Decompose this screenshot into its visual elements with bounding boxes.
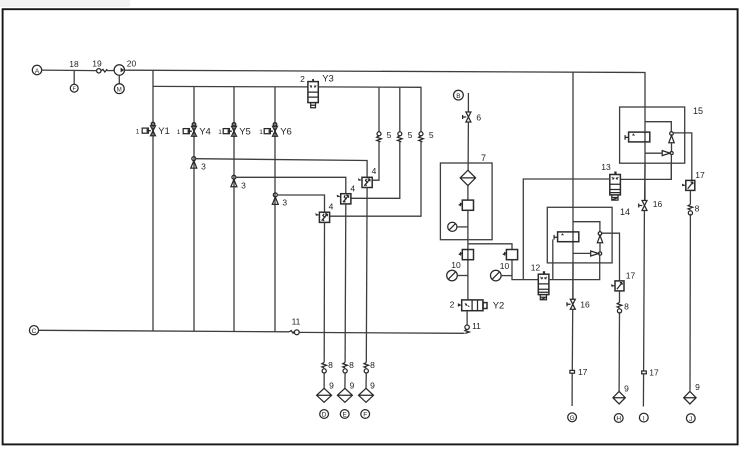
svg-text:15: 15 xyxy=(693,106,703,116)
svg-text:Y5: Y5 xyxy=(239,127,251,138)
svg-text:10: 10 xyxy=(451,260,461,270)
svg-text:8: 8 xyxy=(624,302,629,312)
svg-text:11: 11 xyxy=(292,317,301,327)
svg-text:8: 8 xyxy=(328,360,333,370)
svg-text:19: 19 xyxy=(92,59,102,69)
svg-text:18: 18 xyxy=(69,59,79,69)
svg-text:9: 9 xyxy=(695,382,700,392)
svg-text:13: 13 xyxy=(601,162,611,172)
svg-text:1: 1 xyxy=(136,129,140,136)
svg-text:5: 5 xyxy=(429,130,434,140)
svg-text:20: 20 xyxy=(127,59,137,69)
svg-text:3: 3 xyxy=(282,198,287,208)
svg-text:9: 9 xyxy=(370,381,375,391)
svg-text:I: I xyxy=(643,415,645,422)
svg-text:C: C xyxy=(32,328,37,335)
svg-text:G: G xyxy=(570,415,575,422)
svg-text:17: 17 xyxy=(626,271,636,281)
svg-text:1: 1 xyxy=(177,129,181,136)
svg-text:Y3: Y3 xyxy=(322,74,334,85)
svg-text:17: 17 xyxy=(649,368,659,378)
svg-text:16: 16 xyxy=(580,300,590,310)
svg-text:9: 9 xyxy=(329,381,334,391)
svg-text:17: 17 xyxy=(578,367,588,377)
svg-text:J: J xyxy=(689,416,692,423)
svg-text:Y4: Y4 xyxy=(199,127,211,138)
svg-text:11: 11 xyxy=(472,321,481,331)
svg-text:14: 14 xyxy=(620,207,630,217)
svg-text:8: 8 xyxy=(349,360,354,370)
svg-text:Y1: Y1 xyxy=(158,126,170,137)
svg-text:B: B xyxy=(456,93,460,100)
svg-text:Y2: Y2 xyxy=(493,301,505,312)
svg-text:6: 6 xyxy=(476,113,481,123)
svg-text:4: 4 xyxy=(372,166,377,176)
svg-text:8: 8 xyxy=(370,360,375,370)
svg-text:A: A xyxy=(35,68,40,75)
svg-text:4: 4 xyxy=(350,184,355,194)
svg-text:Y6: Y6 xyxy=(280,127,292,138)
svg-text:D: D xyxy=(322,412,327,419)
svg-text:1: 1 xyxy=(218,129,222,136)
svg-text:9: 9 xyxy=(350,381,355,391)
svg-text:2: 2 xyxy=(450,300,455,310)
svg-text:5: 5 xyxy=(408,130,413,140)
svg-text:10: 10 xyxy=(500,261,510,271)
svg-text:12: 12 xyxy=(531,263,541,273)
svg-text:3: 3 xyxy=(241,180,246,190)
svg-text:E: E xyxy=(343,412,348,419)
svg-text:8: 8 xyxy=(695,204,700,214)
svg-text:5: 5 xyxy=(387,130,392,140)
svg-text:16: 16 xyxy=(653,199,663,209)
svg-text:2: 2 xyxy=(300,74,305,84)
svg-text:H: H xyxy=(616,416,621,423)
svg-text:M: M xyxy=(117,87,122,93)
svg-text:4: 4 xyxy=(329,202,334,212)
svg-text:17: 17 xyxy=(695,170,705,180)
svg-text:7: 7 xyxy=(481,153,486,163)
svg-text:1: 1 xyxy=(259,129,263,136)
svg-text:F: F xyxy=(363,412,367,419)
svg-text:9: 9 xyxy=(624,384,629,394)
svg-text:3: 3 xyxy=(201,162,206,172)
